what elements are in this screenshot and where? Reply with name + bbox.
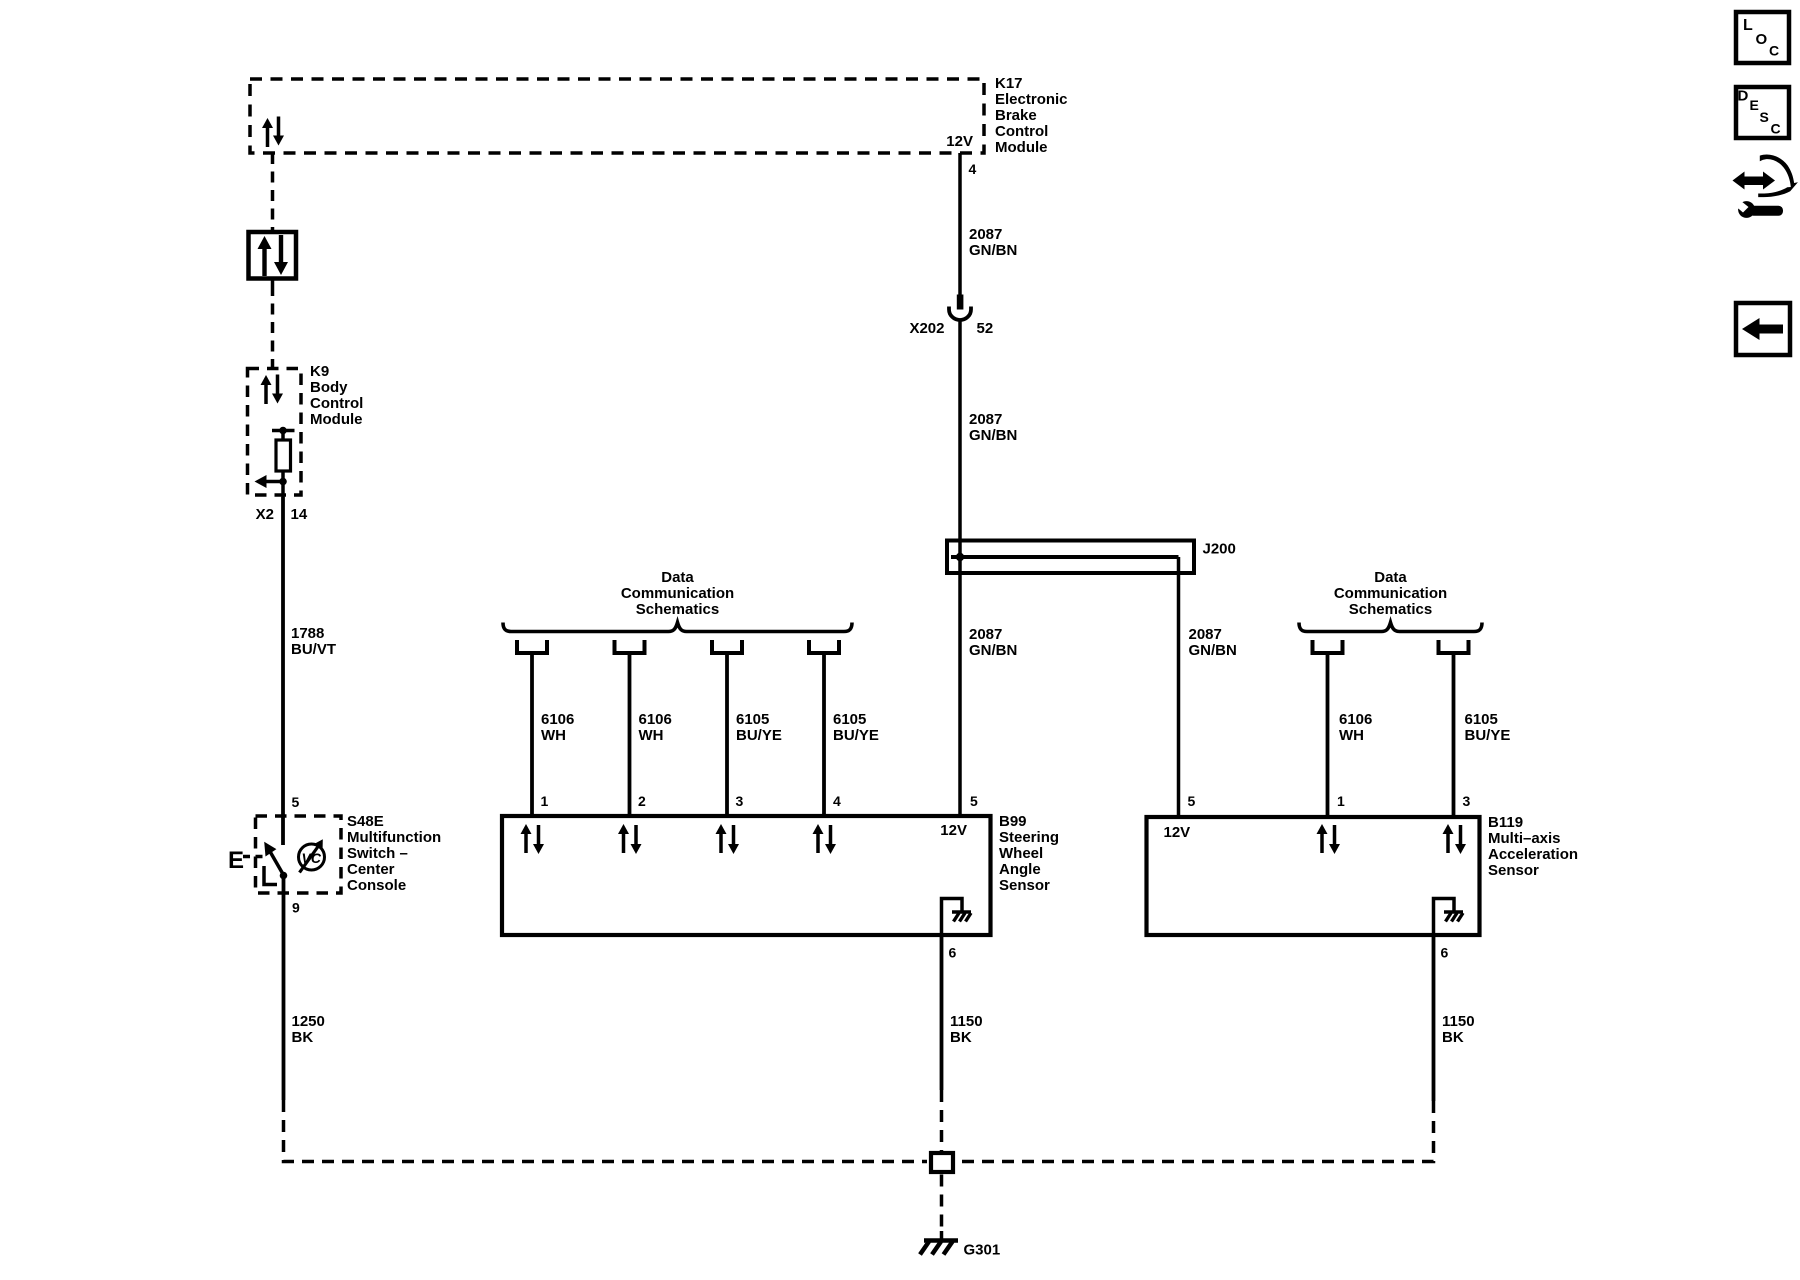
svg-text:4: 4	[833, 793, 841, 809]
switch S48E Multifunction Switch - Center Console (dashed box)	[256, 816, 342, 893]
svg-text:2: 2	[638, 793, 646, 809]
svg-text:GN/BN: GN/BN	[969, 427, 1017, 444]
svg-text:E: E	[1750, 97, 1759, 113]
K17 label	[995, 75, 1068, 156]
wire label 1788 BU/VT	[291, 625, 336, 658]
svg-text:2087: 2087	[969, 411, 1002, 428]
S48E label	[347, 813, 441, 894]
svg-text:B99: B99	[999, 813, 1027, 830]
B99 arrows pin4	[813, 824, 837, 854]
svg-text:12V: 12V	[1164, 824, 1191, 841]
wire label 2087 GN/BN	[969, 226, 1017, 259]
svg-text:6105: 6105	[833, 711, 866, 728]
svg-text:1250: 1250	[292, 1013, 325, 1030]
dashed ground run from S48E	[284, 1100, 928, 1162]
pickup connector wire 4 (6105 BU/YE)	[809, 640, 839, 816]
wire K9 pin14 to S48E pin5 (1788 BU/VT)	[281, 497, 285, 845]
svg-text:2087: 2087	[969, 626, 1002, 643]
icon connector-repair (double arrow, hook arrow, wrench)	[1733, 154, 1798, 217]
wire label 1150 BK	[950, 1013, 983, 1046]
wire label 1150 BK	[1442, 1013, 1475, 1046]
svg-text:4: 4	[969, 161, 977, 177]
dashed wire B119 pin6 to ground run	[956, 1101, 1434, 1162]
pickup connector wire 3 (6105 BU/YE right)	[1439, 640, 1469, 817]
dashed wire splice to G301	[940, 1175, 944, 1232]
wire label 2087 GN/BN	[969, 626, 1017, 659]
svg-text:E: E	[228, 847, 244, 874]
icon LOC box	[1736, 12, 1789, 63]
svg-text:D: D	[1738, 88, 1749, 105]
svg-text:2087: 2087	[969, 226, 1002, 243]
svg-text:Multifunction: Multifunction	[347, 829, 441, 846]
svg-text:WH: WH	[1339, 727, 1364, 744]
svg-text:Data: Data	[661, 569, 694, 586]
svg-text:WH: WH	[639, 727, 664, 744]
B119 arrows pin3	[1443, 824, 1467, 854]
B99 arrows pin1	[521, 824, 545, 854]
module K9 Body Control Module (dashed box)	[248, 369, 302, 496]
svg-text:Communication: Communication	[1334, 585, 1447, 602]
svg-text:Brake: Brake	[995, 107, 1037, 124]
svg-text:K9: K9	[310, 363, 329, 380]
wire label 6106 WH	[1339, 711, 1372, 744]
svg-text:BK: BK	[292, 1029, 314, 1046]
svg-text:Schematics: Schematics	[1349, 601, 1432, 618]
wire label 6105 BU/YE	[736, 711, 782, 744]
svg-text:S: S	[1760, 109, 1769, 125]
svg-text:6105: 6105	[1465, 711, 1498, 728]
svg-text:Body: Body	[310, 379, 348, 396]
pickup connector wire 1 (6106 WH)	[517, 640, 547, 816]
wire label 1250 BK	[292, 1013, 325, 1046]
svg-text:Communication: Communication	[621, 585, 734, 602]
B119 label	[1488, 814, 1578, 879]
svg-text:3: 3	[736, 793, 744, 809]
wire S48E pin9 down (1250 BK)	[282, 876, 286, 1101]
svg-text:WH: WH	[541, 727, 566, 744]
svg-text:Sensor: Sensor	[1488, 862, 1539, 879]
svg-text:K17: K17	[995, 75, 1023, 92]
K9 serial data arrows	[261, 375, 284, 405]
svg-text:Data: Data	[1374, 569, 1407, 586]
svg-text:6: 6	[1441, 945, 1449, 961]
svg-text:12V: 12V	[946, 133, 973, 150]
svg-text:Steering: Steering	[999, 829, 1059, 846]
svg-text:BU/YE: BU/YE	[1465, 727, 1511, 744]
svg-text:1: 1	[541, 793, 549, 809]
brace (left Data Communication Schematics)	[503, 623, 852, 632]
K9 output arrow to pin 14	[255, 471, 287, 497]
svg-text:6: 6	[949, 945, 957, 961]
wire label 6105 BU/YE	[1465, 711, 1511, 744]
svg-text:Switch –: Switch –	[347, 845, 408, 862]
svg-text:Schematics: Schematics	[636, 601, 719, 618]
wire J200 to B99 pin5 (2087 GN/BN)	[958, 557, 962, 816]
svg-text:Sensor: Sensor	[999, 877, 1050, 894]
wire label 2087 GN/BN	[969, 411, 1017, 444]
wire label 6105 BU/YE	[833, 711, 879, 744]
svg-text:6106: 6106	[541, 711, 574, 728]
wire B99 pin6 (1150 BK)	[940, 937, 944, 1090]
dashed wire B99 pin6 to ground splice	[940, 1090, 944, 1151]
wire label 2087 GN/BN	[1189, 626, 1237, 659]
svg-text:6105: 6105	[736, 711, 769, 728]
wire K17 pin4 to X202 (2087 GN/BN)	[958, 153, 962, 295]
svg-text:14: 14	[291, 506, 308, 523]
svg-text:5: 5	[292, 794, 300, 810]
svg-text:BK: BK	[950, 1029, 972, 1046]
ground splice box	[931, 1153, 953, 1172]
svg-text:GN/BN: GN/BN	[969, 642, 1017, 659]
resistor in K9	[276, 440, 291, 471]
svg-text:Control: Control	[995, 123, 1048, 140]
svg-text:12V: 12V	[940, 822, 967, 839]
svg-text:1150: 1150	[950, 1013, 983, 1030]
svg-text:X2: X2	[256, 506, 274, 523]
Data Communication Schematics title (left)	[621, 569, 734, 618]
svg-text:C: C	[1769, 43, 1779, 59]
B119 internal ground	[1434, 899, 1464, 936]
K17 serial data arrows	[262, 117, 284, 148]
svg-text:Console: Console	[347, 877, 406, 894]
svg-text:O: O	[1756, 31, 1768, 48]
wire X202 to J200 (2087 GN/BN)	[958, 322, 962, 558]
sensor B99 Steering Wheel Angle Sensor (box)	[502, 816, 991, 935]
svg-text:2087: 2087	[1189, 626, 1222, 643]
pickup connector wire 3 (6105 BU/YE)	[712, 640, 742, 816]
svg-text:GN/BN: GN/BN	[1189, 642, 1237, 659]
svg-text:L: L	[1743, 17, 1753, 34]
svg-text:Acceleration: Acceleration	[1488, 846, 1578, 863]
pickup connector wire 2 (6106 WH)	[615, 640, 645, 816]
S48E actuator E	[228, 847, 266, 874]
svg-text:3: 3	[1463, 793, 1471, 809]
B99 label	[999, 813, 1059, 894]
B99 internal ground	[942, 899, 972, 938]
svg-text:X202: X202	[909, 320, 944, 337]
S48E VC variable-control symbol	[299, 839, 325, 872]
splice pack J200	[947, 541, 1194, 574]
K9 internal bus bar	[272, 427, 295, 440]
svg-text:Center: Center	[347, 861, 395, 878]
svg-text:6106: 6106	[1339, 711, 1372, 728]
sensor B119 Multi-axis Acceleration Sensor (box)	[1147, 817, 1480, 935]
svg-text:Electronic: Electronic	[995, 91, 1068, 108]
B119 arrows pin1	[1317, 824, 1341, 854]
svg-text:BK: BK	[1442, 1029, 1464, 1046]
wire box to K9 (dashed)	[271, 279, 275, 368]
connector X202 pin 52	[949, 295, 971, 321]
svg-text:Module: Module	[310, 411, 363, 428]
icon DESC box	[1736, 87, 1789, 138]
module K17 Electronic Brake Control Module (dashed box)	[250, 79, 984, 153]
svg-text:C: C	[1771, 121, 1781, 137]
wire label 6106 WH	[639, 711, 672, 744]
svg-text:Multi–axis: Multi–axis	[1488, 830, 1561, 847]
svg-text:Module: Module	[995, 139, 1048, 156]
svg-text:BU/YE: BU/YE	[736, 727, 782, 744]
svg-text:Angle: Angle	[999, 861, 1041, 878]
B99 arrows pin3	[716, 824, 740, 854]
Data Communication Schematics title (right)	[1334, 569, 1447, 618]
svg-text:52: 52	[977, 320, 994, 337]
ground G301	[920, 1231, 958, 1255]
wire J200 to B119 pin5 (2087 GN/BN)	[1177, 557, 1181, 816]
wire K17 to serial data box (dashed)	[271, 153, 275, 230]
S48E switch blade	[264, 842, 287, 885]
svg-text:1788: 1788	[291, 625, 324, 642]
K9 label	[310, 363, 363, 428]
svg-text:Wheel: Wheel	[999, 845, 1043, 862]
svg-text:BU/VT: BU/VT	[291, 641, 336, 658]
svg-text:1: 1	[1337, 793, 1345, 809]
B99 arrows pin2	[618, 824, 642, 854]
icon back-arrow box	[1736, 303, 1790, 355]
svg-text:BU/YE: BU/YE	[833, 727, 879, 744]
svg-text:5: 5	[970, 793, 978, 809]
svg-text:GN/BN: GN/BN	[969, 242, 1017, 259]
brace (right Data Communication Schematics)	[1299, 623, 1482, 632]
svg-text:B119: B119	[1488, 814, 1523, 831]
svg-text:J200: J200	[1203, 541, 1236, 558]
pickup connector wire 1 (6106 WH right)	[1313, 640, 1343, 817]
serial data link box with arrows	[249, 232, 297, 279]
wire B119 pin6 (1150 BK)	[1432, 935, 1436, 1101]
svg-text:G301: G301	[964, 1242, 1001, 1259]
wire label 6106 WH	[541, 711, 574, 744]
svg-text:S48E: S48E	[347, 813, 384, 830]
svg-text:1150: 1150	[1442, 1013, 1475, 1030]
svg-text:5: 5	[1188, 793, 1196, 809]
svg-text:Control: Control	[310, 395, 363, 412]
svg-text:9: 9	[292, 900, 300, 916]
svg-text:6106: 6106	[639, 711, 672, 728]
